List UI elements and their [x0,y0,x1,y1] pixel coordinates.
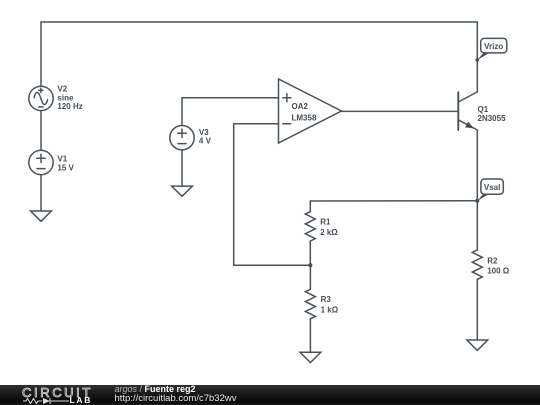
label R2 [487,257,510,276]
wire R3 bottom lead [309,319,311,353]
wire R2 bottom lead [476,279,478,340]
svg-text:V1: V1 [57,155,67,164]
svg-text:1 kΩ: 1 kΩ [321,305,339,314]
label V3 [199,128,212,146]
svg-text:LM358: LM358 [292,113,317,122]
svg-text:OA2: OA2 [292,102,309,111]
label V2 [57,85,82,111]
ground under V1 [31,211,52,221]
ground under R2 [467,340,488,350]
node Vsal junction dot [475,199,479,203]
node label Vsal [477,179,503,201]
resistor R2 [472,250,482,280]
ground under V3 [172,186,193,196]
wire R1 bottom lead [309,241,311,265]
op-amp U1 OA2 [279,79,342,143]
svg-text:Vrizo: Vrizo [484,42,503,51]
wire feedback vertical [233,124,235,266]
wire R1 top lead [309,201,311,212]
resistor R1 [305,212,315,242]
svg-text:100 Ω: 100 Ω [487,266,510,275]
wire op-amp output to base [342,110,459,112]
svg-text:15 V: 15 V [57,164,74,173]
node label Vrizo [476,38,507,61]
resistor R3 [305,289,315,319]
svg-text:2 kΩ: 2 kΩ [320,228,338,237]
svg-text:2N3055: 2N3055 [478,114,507,123]
wire top-left vertical [40,22,42,86]
CircuitLab logo [22,387,93,399]
svg-text:R1: R1 [320,218,331,227]
svg-text:V2: V2 [57,85,67,94]
wire collector drop [476,22,478,92]
wire R3 top lead [309,265,311,289]
voltage source V1 [29,150,53,174]
footer bar [0,385,540,405]
label Q1 [478,105,507,123]
voltage source V3 [170,126,194,150]
voltage source V2 (sine) [29,86,53,110]
svg-text:R3: R3 [321,295,332,304]
wire R2 top lead [476,201,478,250]
wire emitter down [476,130,478,201]
svg-text:4 V: 4 V [199,137,212,146]
wire V3 top lead [181,98,183,126]
node junction feedback/R1/R3 [308,263,312,267]
label V1 [57,155,74,173]
ground under R3 [300,352,321,362]
wire V3 bottom lead [181,150,183,186]
emitter arrow Q1 [465,122,474,129]
wire top rail [41,21,477,23]
wire feedback horizontal [234,264,311,266]
svg-text:V3: V3 [199,128,209,137]
svg-text:Q1: Q1 [478,105,489,114]
wire V2-V1 [40,111,42,151]
svg-text:Vsal: Vsal [484,183,500,192]
wire Vsal horizontal [310,200,477,202]
label R3 [321,295,339,315]
svg-text:sine: sine [57,93,74,102]
wire V3 to op-amp plus [182,97,279,99]
label R1 [320,218,338,237]
svg-text:120 Hz: 120 Hz [57,102,82,111]
label OA2 [292,102,317,122]
wire op-amp minus stub [234,123,279,125]
wire V1-ground [40,175,42,211]
svg-text:R2: R2 [487,257,498,266]
transistor Q1 [458,92,477,130]
